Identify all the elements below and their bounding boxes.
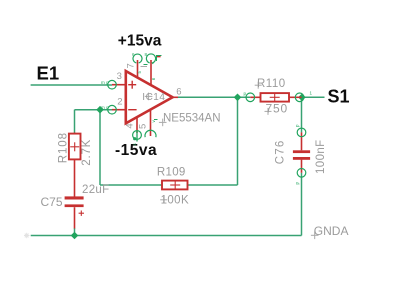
svg-text:22uF: 22uF xyxy=(82,184,109,196)
svg-text:IC14: IC14 xyxy=(142,92,165,103)
svg-text:R110: R110 xyxy=(257,78,286,90)
svg-text:2: 2 xyxy=(117,97,122,108)
svg-text:100K: 100K xyxy=(161,195,189,207)
svg-text:GNDA: GNDA xyxy=(314,224,349,238)
svg-text:C76: C76 xyxy=(274,139,286,164)
svg-text:m: m xyxy=(101,80,105,85)
svg-text:3: 3 xyxy=(117,71,122,82)
svg-text:2.7K: 2.7K xyxy=(81,139,93,166)
svg-text:C75: C75 xyxy=(41,195,63,209)
svg-text:+15va: +15va xyxy=(118,33,162,50)
svg-text:R109: R109 xyxy=(157,167,186,179)
svg-text:4: 4 xyxy=(125,123,136,128)
svg-text:6: 6 xyxy=(176,87,181,98)
svg-text:m: m xyxy=(101,105,105,110)
svg-text:R108: R108 xyxy=(58,132,70,163)
svg-text:100nF: 100nF xyxy=(315,139,327,174)
svg-text:5: 5 xyxy=(138,124,149,129)
svg-text:S1: S1 xyxy=(328,87,350,107)
svg-text:E1: E1 xyxy=(37,63,60,84)
svg-text:750: 750 xyxy=(266,101,288,115)
svg-text:7: 7 xyxy=(125,63,136,68)
svg-text:NE5534AN: NE5534AN xyxy=(163,113,221,125)
